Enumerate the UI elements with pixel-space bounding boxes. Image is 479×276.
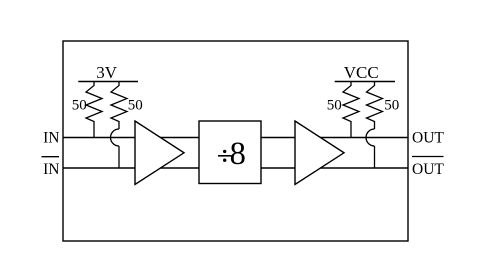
resistor R1 50 (IN pull-up)	[86, 82, 102, 138]
svg-text:3V: 3V	[96, 63, 118, 82]
svg-text:IN: IN	[43, 161, 59, 178]
divide-by-8 block	[199, 121, 261, 184]
svg-text:8: 8	[230, 136, 246, 172]
svg-text:VCC: VCC	[344, 63, 379, 82]
output buffer U2 (triangle)	[295, 121, 344, 185]
wire crossover hop (R2 over IN line)	[111, 129, 119, 146]
port label IN-bar overline	[42, 156, 60, 158]
svg-text:50: 50	[384, 97, 399, 113]
resistor R3 50 (OUT pull-up)	[343, 82, 359, 138]
wire IN-bar signal line (bottom)	[63, 167, 408, 169]
IC boundary rectangle	[63, 41, 408, 241]
port label OUT-bar overline	[412, 156, 444, 158]
resistor R4 50 (OUT-bar pull-up)	[367, 82, 383, 130]
wire IN signal line (top)	[63, 137, 408, 139]
input buffer U1 (triangle)	[135, 121, 184, 185]
svg-text:OUT: OUT	[412, 129, 444, 146]
svg-text:IN: IN	[43, 129, 59, 146]
wire 3V supply rail	[78, 81, 138, 83]
wire R4 to OUT-bar line	[374, 146, 376, 168]
resistor R2 50 (IN-bar pull-up)	[111, 82, 127, 130]
svg-text:50: 50	[72, 97, 87, 113]
wire crossover hop (R4 over OUT line)	[366, 129, 374, 146]
svg-text:50: 50	[327, 97, 342, 113]
svg-text:50: 50	[128, 97, 143, 113]
wire VCC supply rail	[335, 81, 395, 83]
wire R2 to IN-bar line	[118, 146, 120, 168]
svg-text:OUT: OUT	[412, 161, 444, 178]
